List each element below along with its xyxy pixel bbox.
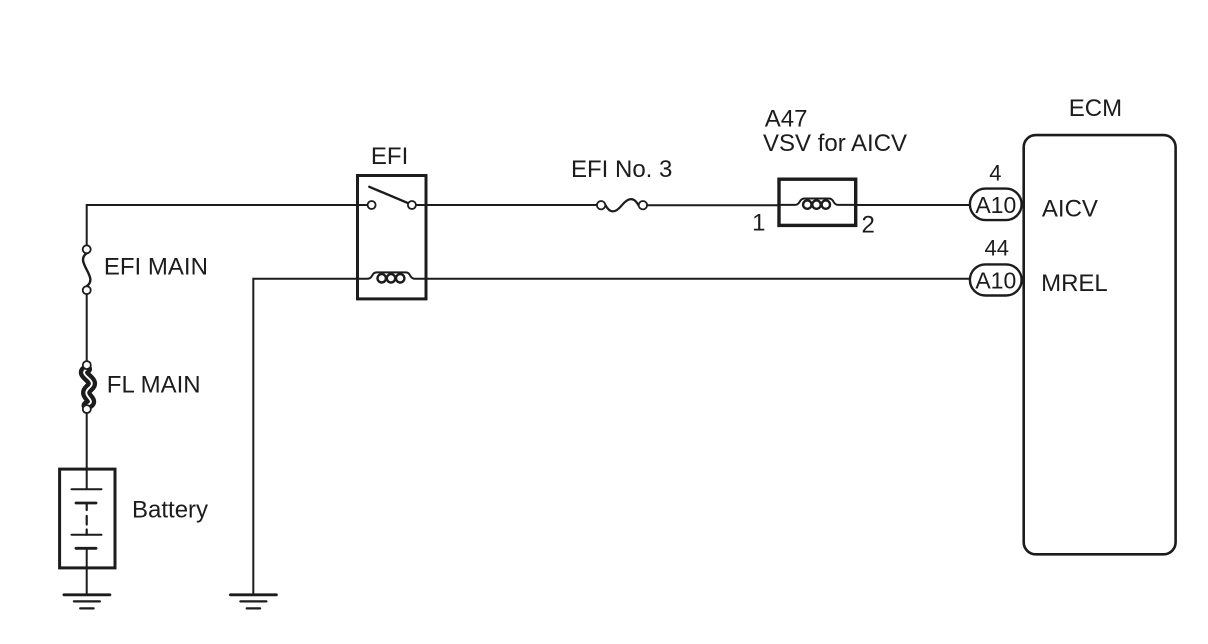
svg-text:MREL: MREL bbox=[1041, 270, 1108, 297]
svg-text:44: 44 bbox=[984, 236, 1008, 261]
fuse EFI No. 3 bbox=[597, 199, 647, 211]
svg-text:A10: A10 bbox=[975, 267, 1016, 293]
svg-text:AICV: AICV bbox=[1042, 196, 1098, 223]
wire VSV to ECM pin 4 bbox=[856, 204, 970, 206]
connector A10 pin 4 bbox=[970, 189, 1022, 221]
ground battery bbox=[64, 595, 110, 609]
svg-text:EFI: EFI bbox=[371, 143, 408, 170]
svg-text:EFI MAIN: EFI MAIN bbox=[104, 254, 208, 281]
wire between EFI MAIN fuse and FL MAIN bbox=[86, 294, 88, 361]
svg-text:Battery: Battery bbox=[132, 496, 208, 523]
wire FL MAIN to battery bbox=[86, 413, 88, 489]
svg-text:2: 2 bbox=[862, 212, 875, 239]
wire battery branch top horizontal bbox=[87, 205, 358, 249]
battery bbox=[60, 469, 115, 568]
svg-text:A10: A10 bbox=[975, 192, 1016, 218]
wire relay coil to ground branch bbox=[253, 279, 357, 594]
svg-text:EFI No. 3: EFI No. 3 bbox=[571, 156, 672, 183]
svg-text:VSV for AICV: VSV for AICV bbox=[763, 130, 907, 157]
svg-text:1: 1 bbox=[752, 210, 765, 237]
ground relay branch bbox=[230, 595, 276, 609]
fusible link FL MAIN bbox=[83, 361, 92, 413]
wire relay coil to ECM pin 44 bbox=[426, 278, 970, 280]
wire fuse to VSV A47 bbox=[647, 204, 779, 206]
relay EFI bbox=[358, 176, 427, 299]
svg-text:A47: A47 bbox=[765, 106, 808, 133]
ECM box bbox=[1024, 135, 1176, 554]
wire relay to EFI No.3 fuse bbox=[426, 204, 597, 206]
svg-text:4: 4 bbox=[989, 161, 1001, 186]
fuse EFI MAIN bbox=[83, 245, 91, 294]
wire battery to ground bbox=[86, 568, 88, 594]
connector A10 pin 44 bbox=[970, 264, 1022, 295]
svg-text:ECM: ECM bbox=[1069, 95, 1122, 122]
svg-text:FL MAIN: FL MAIN bbox=[107, 371, 201, 398]
solenoid valve A47 VSV for AICV bbox=[779, 179, 856, 225]
